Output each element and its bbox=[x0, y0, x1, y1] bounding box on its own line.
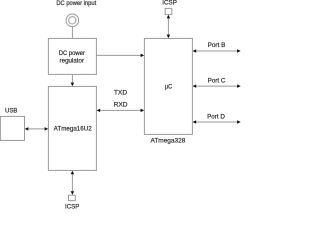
wire: DC jack to regulator bbox=[71, 27, 73, 39]
svg-text:ATmega16U2: ATmega16U2 bbox=[54, 126, 93, 133]
svg-text:Port D: Port D bbox=[207, 113, 225, 120]
block U1 DC power regulator bbox=[48, 38, 96, 74]
svg-text:µC: µC bbox=[165, 84, 173, 91]
svg-text:ICSP: ICSP bbox=[65, 204, 79, 210]
block U3 microcontroller ATmega328 bbox=[144, 38, 192, 134]
connector J1 DC power jack (double circle) bbox=[66, 14, 79, 27]
wire: regulator to ATmega16U2 (arrow down) bbox=[71, 74, 73, 83]
connector J2 USB port bbox=[0, 116, 24, 140]
svg-text:DC power input: DC power input bbox=[56, 0, 96, 7]
wire: USB to ATmega16U2 (double arrow) bbox=[28, 128, 46, 130]
svg-text:USB: USB bbox=[5, 108, 17, 115]
wire: Port C bus (double arrow) bbox=[195, 85, 238, 87]
connector J4 ICSP header (top) bbox=[165, 8, 172, 14]
svg-text:ICSP: ICSP bbox=[162, 0, 177, 6]
wire: regulator to microcontroller (arrow right) bbox=[96, 54, 141, 56]
svg-text:TXD: TXD bbox=[114, 90, 128, 97]
wire: ATmega16U2 to bottom ICSP header (double arrow) bbox=[71, 173, 73, 192]
svg-text:regulator: regulator bbox=[60, 57, 85, 64]
wire: Port D bus (double arrow) bbox=[195, 121, 238, 123]
svg-text:ATmega328: ATmega328 bbox=[151, 138, 186, 145]
wire: top ICSP header to ATmega328 (double arrow) bbox=[167, 17, 169, 35]
svg-text:DC power: DC power bbox=[59, 50, 85, 57]
block U2 ATmega16U2 bbox=[48, 86, 96, 170]
wire: Port B bus (double arrow) bbox=[195, 50, 238, 52]
connector J3 ICSP header (bottom) bbox=[69, 195, 76, 200]
wire: serial bus ATmega16U2 to ATmega328 (double arrow) bbox=[100, 109, 142, 111]
svg-text:Port C: Port C bbox=[208, 77, 226, 84]
svg-text:RXD: RXD bbox=[114, 102, 129, 109]
svg-text:Port B: Port B bbox=[208, 42, 226, 49]
